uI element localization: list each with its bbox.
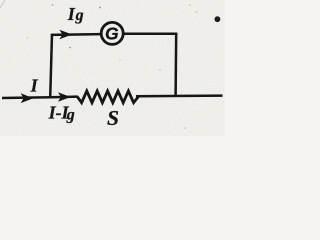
svg-text:g: g [66,106,75,123]
arrow for current I [21,93,34,103]
wire node A to shunt [51,95,78,98]
svg-text:G: G [105,24,119,44]
svg-text:I: I [67,4,76,24]
arrow for current I-Ig [58,92,71,102]
stray ink dot [215,16,221,22]
galvanometer G [101,22,123,44]
svg-text:S: S [107,106,119,130]
svg-text:g: g [75,7,84,24]
wire right vertical drop [174,33,177,97]
wire output lead (right) [136,94,223,97]
resistor S (shunt) zigzag [77,91,138,103]
svg-text:I: I [30,76,39,96]
node B junction [175,95,177,97]
wire galvanometer branch left [51,33,101,36]
wire galvanometer branch right [123,33,177,36]
wire input lead (left) [2,96,51,99]
node A junction [50,96,52,98]
wire left vertical riser [50,34,52,98]
arrow for current Ig [59,30,72,39]
